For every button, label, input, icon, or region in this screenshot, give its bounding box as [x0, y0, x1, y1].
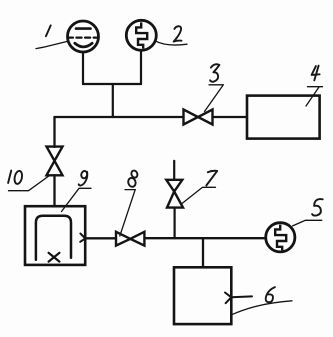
- wire: drop to tank 6 (junction): [202, 238, 204, 267]
- valve 10: [47, 147, 63, 176]
- leader label4: [306, 87, 323, 106]
- gauge 1 dashed grid line: [68, 36, 99, 38]
- wire: valve 10 to chamber 9: [53, 175, 55, 206]
- valve 8: [116, 232, 144, 246]
- label 2: [174, 26, 182, 41]
- tank 6 inlet stub line: [231, 295, 252, 298]
- wire: gauge 2 stem: [140, 50, 142, 84]
- chamber 9 outlet arrowhead: [80, 234, 85, 242]
- gauge 1 cathode arc: [75, 43, 92, 47]
- valve 3: [184, 110, 213, 125]
- vacuum gauge tube 1 (body): [68, 21, 99, 52]
- leader label8: [120, 190, 135, 236]
- gauge 2 heater meander: [136, 22, 147, 48]
- wire: left drop to valve 10: [53, 117, 55, 147]
- wire: valve 7 vent stem: [173, 161, 175, 180]
- leader label3: [205, 85, 224, 112]
- wire: header drop to main pipe (junction): [112, 84, 114, 117]
- leader label7: [182, 187, 216, 203]
- label 6: [266, 287, 275, 302]
- chamber 9 x-mark: [49, 253, 60, 262]
- chamber 9 bell jar: [36, 216, 71, 260]
- thermocouple gauge tube 5 (body): [266, 223, 295, 252]
- wire: gauge 1 stem: [82, 52, 84, 84]
- leader label1: [36, 41, 68, 48]
- label 5: [312, 199, 323, 215]
- label 1: [46, 25, 51, 36]
- leader label2: [155, 41, 188, 45]
- leader label6: [231, 301, 292, 315]
- label 3: [210, 64, 219, 82]
- leader label9: [62, 188, 92, 211]
- wire: valve 7 to main pipe (junction): [174, 208, 176, 239]
- wire: main top pipe: [55, 116, 184, 118]
- leader label10: [9, 176, 50, 191]
- label 7: [206, 171, 217, 186]
- tank 6 (box): [174, 267, 231, 324]
- wire: valve 8 to gauge 5: [145, 237, 266, 239]
- vacuum chamber 9 (box): [25, 206, 85, 265]
- label 9: [80, 170, 87, 179]
- gauge 5 heater meander: [275, 225, 286, 251]
- unit 4 (box): [247, 96, 320, 139]
- wire: valve 3 to box 4: [213, 116, 248, 118]
- valve 7: [166, 180, 183, 208]
- thermocouple gauge tube 2 (body): [126, 20, 156, 50]
- tank 6 inlet arrowhead: [225, 293, 231, 304]
- label 8: [130, 170, 138, 179]
- wire: gauge header: [83, 83, 141, 85]
- label 4: [312, 66, 320, 81]
- leader label5: [293, 220, 322, 226]
- wire: chamber 9 to valve 8: [85, 237, 116, 239]
- gauge 1 electrode bar: [76, 27, 91, 30]
- label 10: [8, 171, 11, 183]
